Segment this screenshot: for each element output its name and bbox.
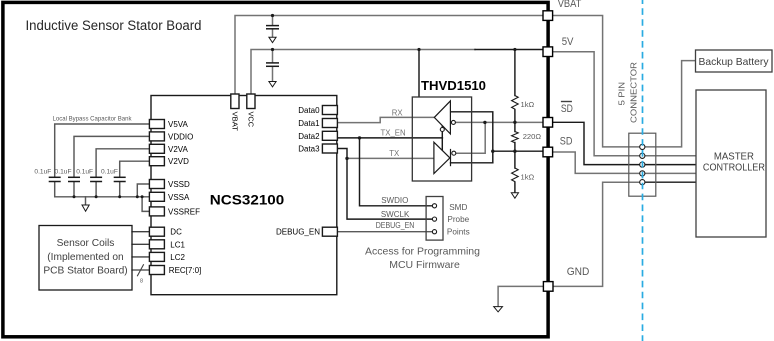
- svg-text:VSSD: VSSD: [168, 180, 190, 189]
- svg-text:SD: SD: [560, 135, 573, 147]
- svg-text:DEBUG_EN: DEBUG_EN: [376, 221, 415, 230]
- svg-text:VSSREF: VSSREF: [168, 207, 200, 216]
- svg-text:0.1uF: 0.1uF: [76, 168, 93, 175]
- svg-text:V2VA: V2VA: [168, 145, 189, 154]
- svg-text:TX: TX: [389, 149, 400, 158]
- svg-text:Data1: Data1: [298, 119, 320, 128]
- svg-text:SWCLK: SWCLK: [381, 210, 410, 219]
- svg-text:Inductive Sensor Stator Board: Inductive Sensor Stator Board: [26, 18, 202, 34]
- svg-text:DC: DC: [170, 228, 182, 237]
- svg-text:CONTROLLER: CONTROLLER: [703, 163, 765, 174]
- svg-text:SD: SD: [561, 103, 573, 115]
- svg-text:LC2: LC2: [170, 253, 185, 262]
- svg-text:1kΩ: 1kΩ: [521, 172, 535, 181]
- svg-text:VBAT: VBAT: [558, 0, 582, 10]
- svg-text:220Ω: 220Ω: [523, 132, 542, 141]
- svg-text:V2VD: V2VD: [168, 157, 189, 166]
- svg-text:8: 8: [140, 279, 143, 285]
- svg-text:VBAT: VBAT: [231, 112, 240, 132]
- svg-text:5V: 5V: [562, 36, 575, 48]
- svg-text:THVD1510: THVD1510: [421, 79, 486, 93]
- svg-text:DEBUG_EN: DEBUG_EN: [276, 228, 320, 237]
- svg-text:Data3: Data3: [298, 145, 320, 154]
- svg-text:Points: Points: [447, 228, 470, 237]
- svg-text:Access for Programming: Access for Programming: [365, 246, 480, 258]
- svg-text:Sensor Coils: Sensor Coils: [57, 238, 115, 249]
- svg-text:SWDIO: SWDIO: [381, 196, 408, 205]
- svg-text:Data2: Data2: [298, 132, 320, 141]
- svg-text:(Implemented on: (Implemented on: [47, 252, 123, 263]
- svg-text:PCB Stator Board): PCB Stator Board): [43, 266, 127, 277]
- svg-text:RX: RX: [392, 108, 404, 117]
- svg-text:LC1: LC1: [170, 240, 185, 249]
- svg-text:NCS32100: NCS32100: [210, 192, 285, 208]
- svg-text:CONNECTOR: CONNECTOR: [629, 62, 639, 123]
- svg-text:Backup Battery: Backup Battery: [699, 57, 770, 68]
- svg-text:SMD: SMD: [449, 203, 467, 212]
- svg-text:Data0: Data0: [298, 106, 320, 115]
- svg-text:TX_EN: TX_EN: [381, 128, 406, 137]
- svg-text:VSSA: VSSA: [168, 193, 190, 202]
- svg-text:VDDIO: VDDIO: [168, 132, 193, 141]
- svg-text:0.1uF: 0.1uF: [55, 168, 72, 175]
- svg-text:GND: GND: [567, 266, 590, 278]
- svg-text:1kΩ: 1kΩ: [521, 100, 535, 109]
- svg-text:MCU Firmware: MCU Firmware: [389, 259, 460, 271]
- svg-text:Probe: Probe: [447, 215, 469, 224]
- svg-text:0.1uF: 0.1uF: [34, 168, 51, 175]
- svg-text:REC[7:0]: REC[7:0]: [169, 266, 201, 275]
- svg-text:5 PIN: 5 PIN: [617, 82, 627, 106]
- svg-text:V5VA: V5VA: [168, 120, 189, 129]
- svg-text:0.1uF: 0.1uF: [101, 168, 118, 175]
- svg-text:Local Bypass Capacitor Bank: Local Bypass Capacitor Bank: [53, 115, 133, 122]
- svg-text:MASTER: MASTER: [714, 152, 754, 163]
- svg-text:VCC: VCC: [247, 112, 256, 128]
